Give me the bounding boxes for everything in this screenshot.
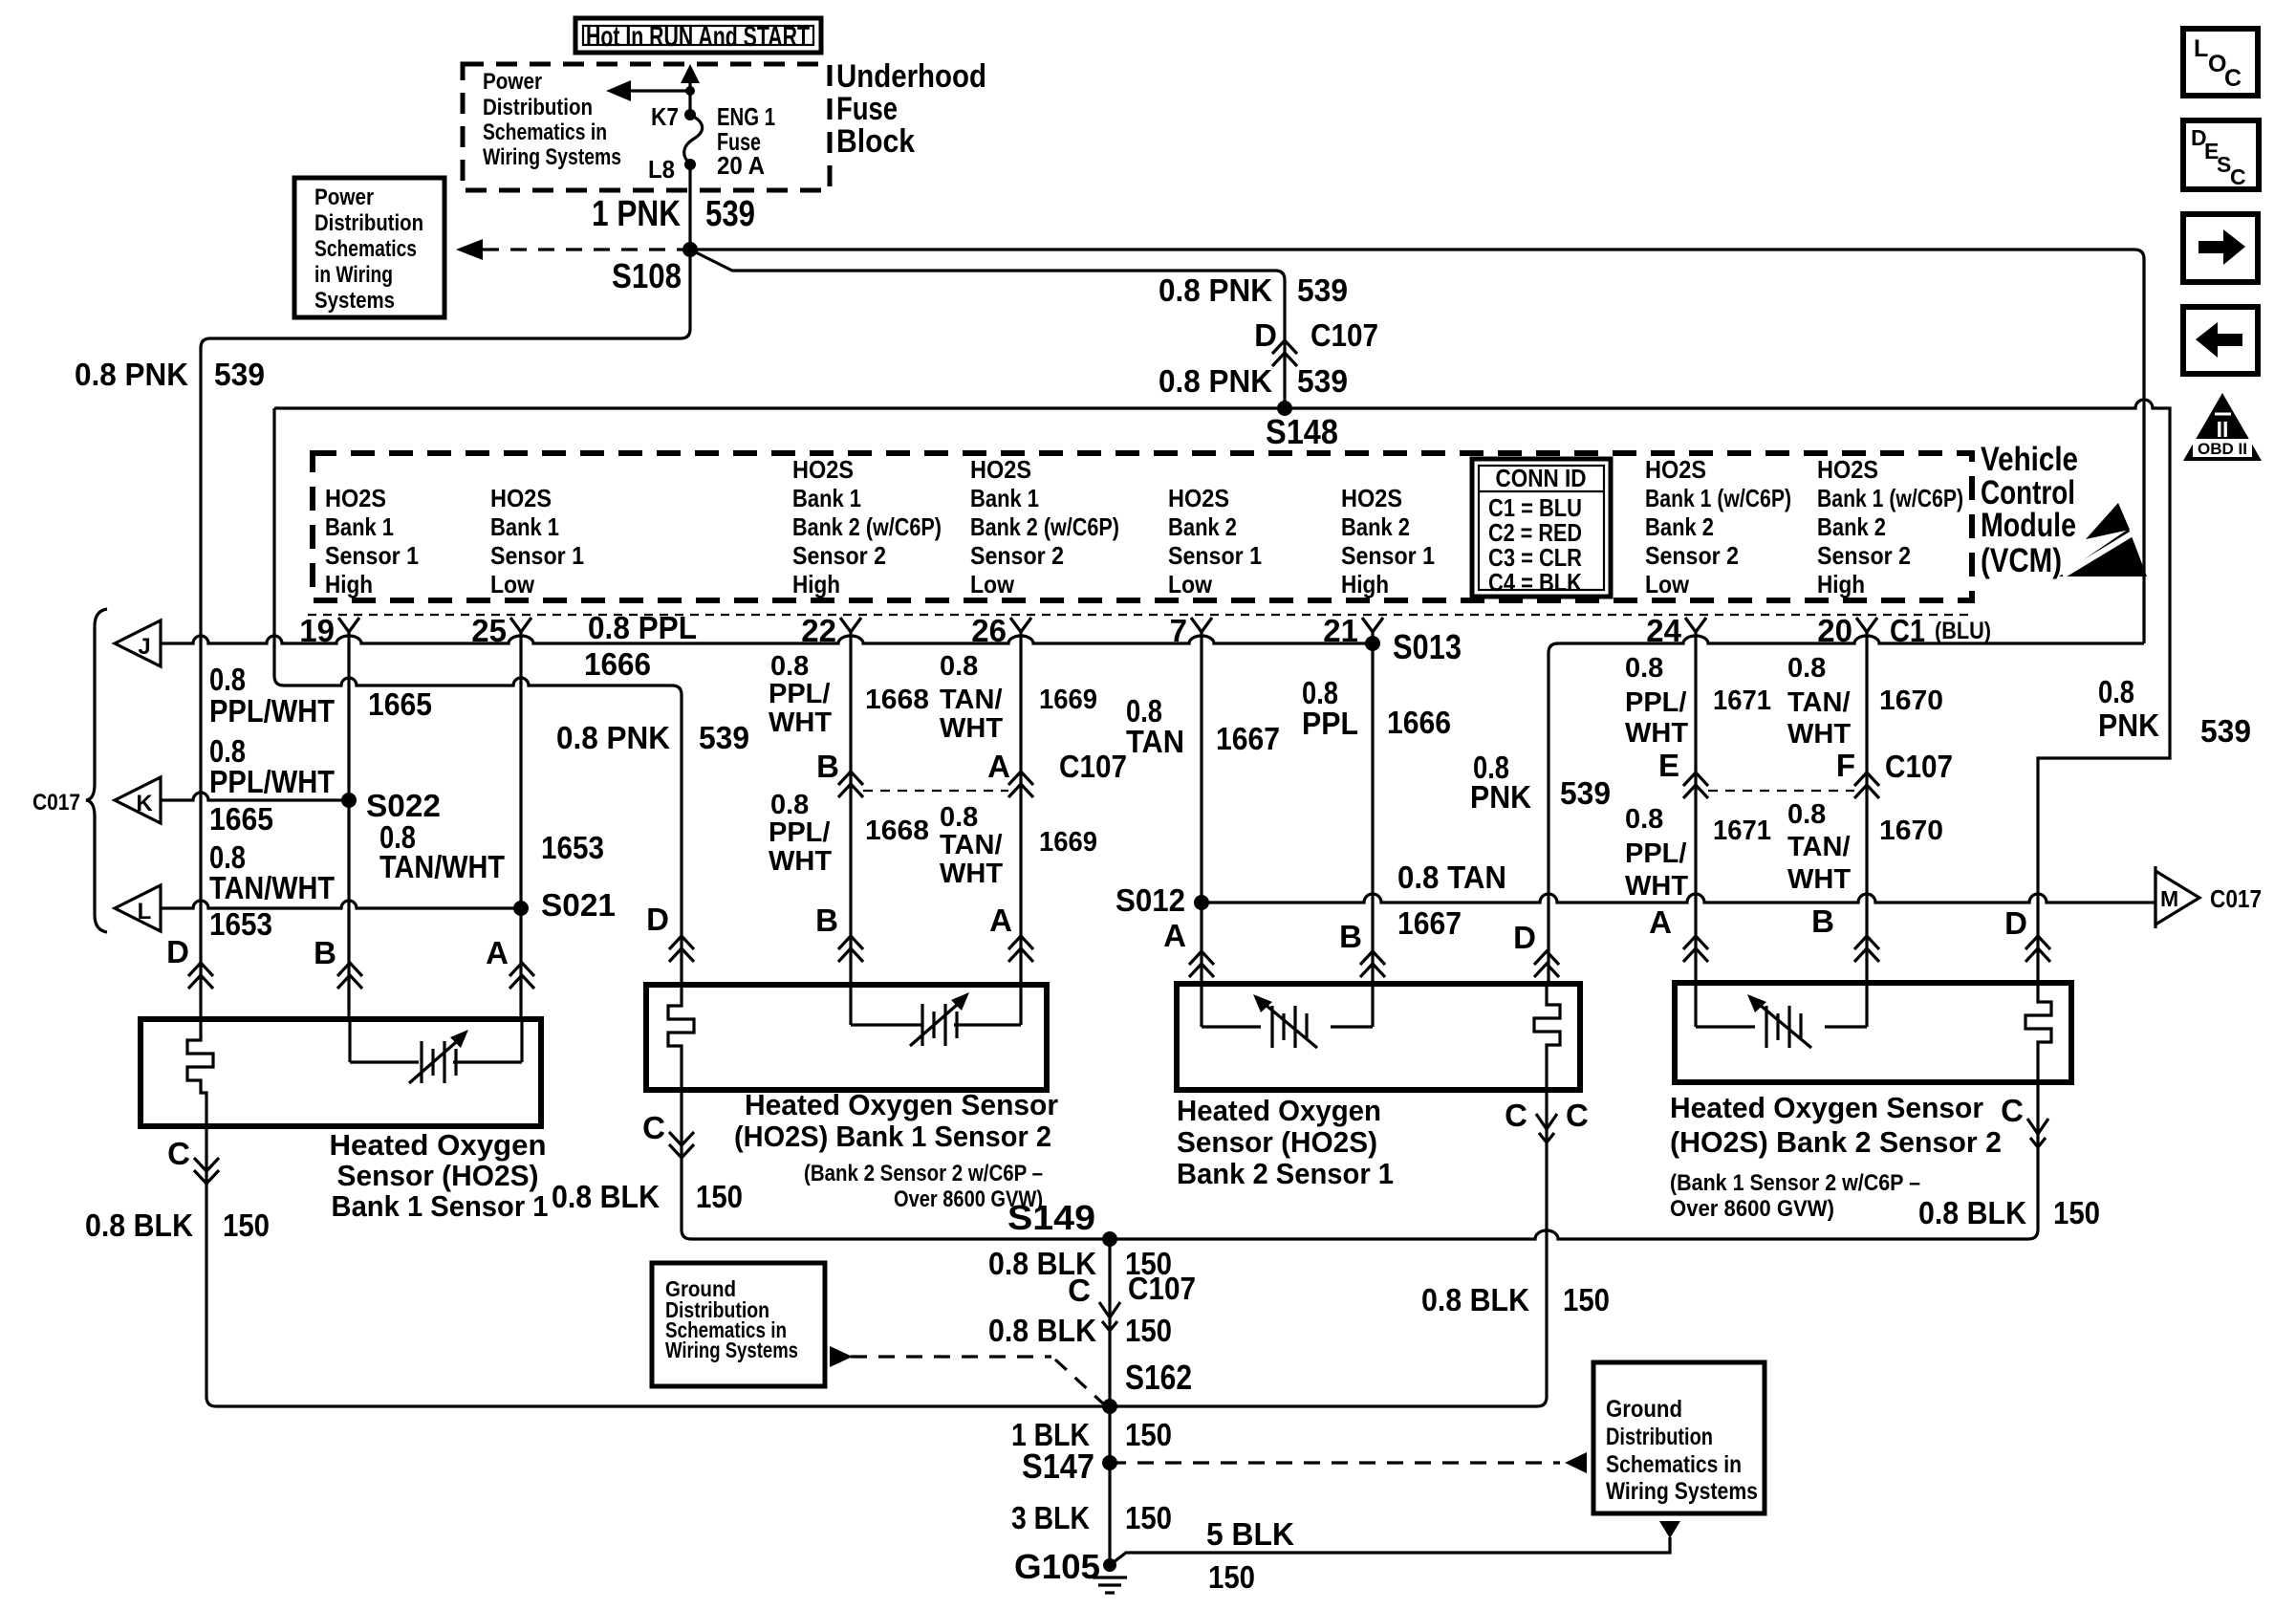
svg-text:Underhood: Underhood: [836, 58, 986, 95]
Ground Distribution box (left): [652, 1263, 825, 1386]
Power Distribution Schematics in Wiring Systems box (left): [294, 178, 444, 317]
svg-text:Ground: Ground: [1606, 1396, 1682, 1423]
svg-text:0.8: 0.8: [940, 651, 978, 682]
sensor2 C wire to S149 and sensor4 C: [682, 1082, 2038, 1239]
svg-text:Heated Oxygen Sensor: Heated Oxygen Sensor: [1670, 1091, 1983, 1124]
svg-text:High: High: [325, 570, 373, 598]
svg-text:PPL/: PPL/: [1625, 687, 1686, 718]
wire: pin 22 PPL/WHT 1668 to sensor2 B: [849, 632, 852, 985]
svg-text:PPL/: PPL/: [769, 679, 830, 709]
svg-text:0.8: 0.8: [940, 802, 978, 833]
svg-text:J: J: [138, 634, 150, 660]
sensor4 C connector: [2027, 1119, 2048, 1147]
heater element sensor4: [2025, 983, 2051, 1082]
svg-text:C: C: [167, 1136, 190, 1171]
wire: pin 24 PPL/WHT 1671 to sensor4 A: [1694, 632, 1697, 983]
svg-text:A: A: [989, 903, 1012, 938]
svg-text:A: A: [486, 935, 509, 970]
fuse ENG 1 20A with terminals K7 / L8: [688, 80, 691, 115]
svg-text:B: B: [1811, 903, 1834, 939]
right arrow icon: [2183, 214, 2258, 282]
svg-text:0.8 PNK: 0.8 PNK: [556, 720, 670, 755]
svg-text:24: 24: [1646, 613, 1681, 648]
svg-text:0.8 TAN: 0.8 TAN: [1397, 859, 1506, 895]
svg-text:Bank 1 Sensor 1: Bank 1 Sensor 1: [332, 1189, 549, 1223]
wire: J to S013 0.8 PPL 1666: [161, 636, 1373, 643]
svg-text:S162: S162: [1125, 1358, 1192, 1397]
svg-text:C: C: [1505, 1098, 1527, 1133]
svg-text:Bank 1: Bank 1: [792, 484, 861, 512]
svg-text:K: K: [136, 791, 153, 816]
svg-text:0.8: 0.8: [1625, 653, 1663, 684]
svg-text:D: D: [1513, 920, 1536, 955]
svg-text:Low: Low: [1168, 570, 1213, 598]
svg-text:B: B: [1339, 919, 1362, 954]
svg-text:0.8: 0.8: [2098, 674, 2134, 709]
wire: pin 20 TAN/WHT 1670 to sensor4 B: [1865, 632, 1868, 983]
svg-text:WHT: WHT: [769, 846, 832, 877]
svg-text:Sensor 2: Sensor 2: [1817, 541, 1911, 570]
svg-text:High: High: [792, 570, 840, 598]
svg-text:Module: Module: [1981, 507, 2076, 544]
svg-text:(VCM): (VCM): [1981, 542, 2062, 579]
svg-text:150: 150: [1125, 1500, 1172, 1535]
splice S022: [341, 793, 357, 808]
splice S148: [1277, 401, 1292, 416]
heater element sensor1: [187, 1019, 213, 1126]
svg-text:539: 539: [1297, 363, 1348, 399]
wire: pin 19 PPL/WHT 1665 to sensor1 B: [347, 632, 350, 1019]
svg-text:0.8 PNK: 0.8 PNK: [75, 357, 188, 392]
svg-text:(Bank 2 Sensor 2 w/C6P –: (Bank 2 Sensor 2 w/C6P –: [804, 1161, 1043, 1186]
wire: S012 to M 0.8 TAN 1667: [1202, 894, 2155, 903]
Underhood Fuse Block dashed box: [463, 64, 830, 190]
heater element sensor3: [1534, 984, 1560, 1090]
svg-text:1669: 1669: [1039, 685, 1097, 715]
splice S013: [1365, 636, 1380, 651]
svg-text:150: 150: [2053, 1195, 2100, 1230]
LOC icon: [2183, 29, 2258, 96]
svg-text:0.8 BLK: 0.8 BLK: [1918, 1195, 2026, 1230]
wire: pin 25 TAN/WHT 1653 to sensor1 A: [519, 632, 522, 1019]
splice S149: [1102, 1231, 1117, 1247]
svg-text:HO2S: HO2S: [1341, 484, 1402, 512]
VCM pins with ticks: [338, 618, 359, 632]
label box: Hot In RUN And START: [575, 18, 821, 53]
svg-text:S012: S012: [1116, 882, 1185, 918]
svg-text:Bank 1 (w/C6P): Bank 1 (w/C6P): [1645, 484, 1791, 512]
svg-text:WHT: WHT: [1625, 718, 1688, 749]
svg-text:HO2S: HO2S: [325, 484, 386, 512]
svg-text:Sensor 2: Sensor 2: [970, 541, 1064, 570]
svg-text:C107: C107: [1059, 749, 1127, 784]
svg-text:OBD II: OBD II: [2198, 440, 2247, 458]
svg-text:Fuse: Fuse: [836, 91, 898, 127]
dashed arrow from left ground box to S162: [830, 1346, 853, 1367]
connector C017 brace: [86, 609, 107, 932]
svg-text:Sensor 1: Sensor 1: [490, 541, 584, 570]
svg-text:S021: S021: [541, 887, 616, 923]
svg-text:HO2S: HO2S: [1817, 455, 1878, 484]
ground trunk wire: [1108, 1239, 1111, 1565]
svg-text:150: 150: [223, 1207, 270, 1243]
sensor element sensor2: [851, 985, 1021, 1025]
splice S012: [1194, 895, 1209, 910]
svg-text:M: M: [2160, 886, 2178, 911]
svg-text:B: B: [816, 749, 839, 784]
svg-text:Sensor 1: Sensor 1: [1341, 541, 1435, 570]
svg-text:TAN/: TAN/: [1787, 832, 1851, 862]
svg-text:C: C: [642, 1110, 665, 1145]
ground G105: [1103, 1558, 1116, 1572]
svg-text:0.8 BLK: 0.8 BLK: [1421, 1282, 1529, 1317]
svg-text:Block: Block: [836, 123, 915, 160]
svg-text:Wiring Systems: Wiring Systems: [1606, 1478, 1758, 1505]
svg-text:539: 539: [699, 720, 749, 755]
svg-text:Wiring Systems: Wiring Systems: [483, 144, 621, 170]
svg-text:Over 8600 GVW): Over 8600 GVW): [1670, 1196, 1834, 1222]
svg-text:1671: 1671: [1713, 816, 1771, 846]
svg-text:0.8 BLK: 0.8 BLK: [85, 1207, 193, 1243]
svg-text:1667: 1667: [1216, 721, 1280, 756]
dashed arrow to Power Distribution box: [483, 248, 686, 250]
svg-text:0.8: 0.8: [1787, 799, 1826, 830]
terminal J: [115, 620, 161, 666]
svg-text:0.8 BLK: 0.8 BLK: [988, 1313, 1096, 1348]
svg-text:Wiring Systems: Wiring Systems: [665, 1338, 798, 1362]
svg-text:II: II: [2217, 417, 2229, 442]
svg-text:Heated Oxygen Sensor: Heated Oxygen Sensor: [745, 1088, 1058, 1121]
svg-text:TAN/: TAN/: [1787, 687, 1851, 718]
svg-text:1671: 1671: [1713, 685, 1771, 716]
svg-text:A: A: [1649, 904, 1672, 940]
svg-text:PPL/WHT: PPL/WHT: [209, 693, 335, 729]
svg-text:PPL: PPL: [1302, 706, 1358, 741]
svg-text:S022: S022: [366, 788, 441, 823]
sensor1 C wire and S162 run: [206, 1090, 1547, 1406]
svg-text:B: B: [815, 903, 838, 938]
svg-text:539: 539: [1297, 272, 1348, 308]
CONN ID table: [1472, 459, 1611, 597]
svg-text:Distribution: Distribution: [314, 210, 423, 236]
svg-text:1665: 1665: [368, 686, 432, 722]
wire: 5 BLK 150 from right ground box to G105: [1110, 1537, 1670, 1565]
svg-text:C107: C107: [1128, 1271, 1196, 1306]
splice S162: [1102, 1399, 1117, 1414]
svg-text:3 BLK: 3 BLK: [1011, 1500, 1090, 1535]
DESC icon: [2183, 120, 2259, 189]
VCM dashed box: [313, 453, 1972, 600]
svg-text:Bank 2: Bank 2: [1341, 512, 1410, 541]
HO2S sensor 4 box: [1675, 983, 2071, 1082]
svg-text:0.8 BLK: 0.8 BLK: [552, 1179, 660, 1214]
svg-text:Low: Low: [970, 570, 1015, 598]
svg-text:1669: 1669: [1039, 827, 1097, 858]
ESD sensitivity symbol: [2086, 503, 2130, 539]
svg-text:D: D: [1254, 317, 1277, 353]
svg-text:PNK: PNK: [1470, 779, 1531, 815]
wire: S108 right top run 0.8 PNK to right side: [690, 250, 2144, 643]
svg-text:Distribution: Distribution: [1606, 1424, 1713, 1450]
wire: pin 7 TAN 1667 to sensor3 A: [1200, 632, 1202, 984]
connector D C107 chevron: [1272, 340, 1297, 366]
svg-text:(HO2S) Bank 1 Sensor 2: (HO2S) Bank 1 Sensor 2: [734, 1120, 1051, 1153]
sensor element sensor3: [1202, 984, 1373, 1027]
svg-text:Bank 2: Bank 2: [1645, 512, 1714, 541]
svg-text:F: F: [1836, 748, 1855, 783]
svg-text:CONN ID: CONN ID: [1496, 464, 1587, 492]
svg-text:L: L: [138, 899, 152, 925]
svg-text:D: D: [2004, 905, 2027, 941]
svg-text:1667: 1667: [1397, 905, 1462, 941]
svg-text:1666: 1666: [1387, 705, 1451, 740]
left arrow icon: [2183, 307, 2258, 374]
svg-text:High: High: [1817, 570, 1865, 598]
svg-text:TAN/: TAN/: [940, 830, 1003, 860]
svg-text:Sensor 2: Sensor 2: [1645, 541, 1739, 570]
svg-text:Bank 2 (w/C6P): Bank 2 (w/C6P): [970, 512, 1119, 541]
svg-text:Bank 1: Bank 1: [490, 512, 559, 541]
svg-text:20: 20: [1817, 613, 1852, 648]
svg-text:HO2S: HO2S: [970, 455, 1031, 484]
svg-text:K7: K7: [651, 102, 679, 131]
terminal K: [115, 777, 161, 823]
svg-text:Power: Power: [314, 185, 374, 210]
svg-text:Low: Low: [1645, 570, 1690, 598]
svg-text:Sensor 2: Sensor 2: [792, 541, 886, 570]
svg-text:E: E: [1658, 748, 1679, 783]
svg-text:D: D: [646, 902, 669, 937]
svg-text:1670: 1670: [1879, 685, 1943, 716]
svg-text:PPL/WHT: PPL/WHT: [209, 764, 335, 799]
svg-text:C107: C107: [1310, 317, 1378, 353]
svg-text:WHT: WHT: [1787, 864, 1851, 895]
svg-text:Schematics in: Schematics in: [483, 120, 607, 145]
svg-text:C1: C1: [1890, 613, 1925, 648]
svg-text:A: A: [987, 749, 1010, 784]
svg-text:A: A: [1163, 918, 1186, 953]
svg-text:Bank 1 (w/C6P): Bank 1 (w/C6P): [1817, 484, 1963, 512]
svg-text:Sensor (HO2S): Sensor (HO2S): [337, 1159, 539, 1192]
svg-text:S147: S147: [1022, 1447, 1094, 1486]
svg-text:G105: G105: [1014, 1547, 1100, 1586]
svg-text:Bank 2 (w/C6P): Bank 2 (w/C6P): [792, 512, 942, 541]
svg-text:D: D: [166, 934, 189, 969]
svg-text:PPL/: PPL/: [769, 817, 830, 848]
svg-text:PPL/: PPL/: [1625, 838, 1686, 869]
svg-text:(HO2S) Bank 2 Sensor 2: (HO2S) Bank 2 Sensor 2: [1670, 1125, 2002, 1159]
svg-text:High: High: [1341, 570, 1389, 598]
svg-text:0.8: 0.8: [770, 790, 809, 820]
svg-text:539: 539: [1560, 775, 1611, 811]
svg-text:1653: 1653: [541, 830, 604, 865]
splice S108: [682, 242, 698, 257]
heater element sensor2: [668, 985, 694, 1090]
terminal L: [115, 885, 161, 931]
svg-text:150: 150: [696, 1179, 743, 1214]
svg-text:0.8 PNK: 0.8 PNK: [1159, 363, 1272, 399]
svg-text:C: C: [1566, 1098, 1589, 1133]
svg-text:Bank 2: Bank 2: [1168, 512, 1237, 541]
svg-text:S149: S149: [1007, 1198, 1095, 1237]
svg-text:0.8: 0.8: [770, 651, 809, 682]
svg-text:C4 = BLK: C4 = BLK: [1488, 568, 1582, 597]
HO2S sensor 2 box: [646, 985, 1047, 1090]
sensor element sensor4: [1696, 983, 1867, 1027]
svg-text:539: 539: [2200, 713, 2251, 749]
svg-text:S148: S148: [1266, 412, 1338, 451]
svg-text:C: C: [1068, 1273, 1091, 1308]
svg-text:C: C: [2001, 1093, 2024, 1128]
splice S147: [1102, 1455, 1117, 1470]
svg-text:539: 539: [214, 357, 265, 392]
svg-text:TAN/WHT: TAN/WHT: [379, 849, 505, 884]
svg-text:WHT: WHT: [940, 859, 1003, 889]
svg-text:Bank 2 Sensor 1: Bank 2 Sensor 1: [1177, 1157, 1394, 1190]
svg-text:20 A: 20 A: [717, 151, 765, 180]
svg-text:1 PNK: 1 PNK: [592, 194, 681, 234]
svg-text:150: 150: [1208, 1559, 1255, 1595]
svg-text:Heated Oxygen: Heated Oxygen: [330, 1128, 547, 1162]
svg-text:HO2S: HO2S: [1168, 484, 1229, 512]
svg-text:PNK: PNK: [2098, 707, 2159, 743]
Ground Distribution box (right): [1593, 1362, 1765, 1513]
svg-text:HO2S: HO2S: [490, 484, 552, 512]
svg-text:Power: Power: [483, 69, 542, 95]
svg-text:C: C: [2230, 164, 2246, 189]
wire: pin 26 TAN/WHT 1669 to sensor2 A: [1019, 632, 1022, 985]
svg-text:Low: Low: [490, 570, 535, 598]
svg-text:Bank 1: Bank 1: [970, 484, 1039, 512]
svg-text:WHT: WHT: [1625, 871, 1688, 902]
svg-text:WHT: WHT: [940, 713, 1003, 744]
svg-text:(BLU): (BLU): [1935, 618, 1991, 644]
svg-text:539: 539: [705, 194, 755, 234]
svg-text:1670: 1670: [1879, 816, 1943, 846]
svg-text:Sensor (HO2S): Sensor (HO2S): [1177, 1125, 1377, 1159]
svg-text:1665: 1665: [209, 801, 273, 837]
wire: L to S021 0.8 TAN/WHT 1653: [161, 901, 521, 908]
svg-text:(Bank 1 Sensor 2 w/C6P –: (Bank 1 Sensor 2 w/C6P –: [1670, 1170, 1920, 1196]
HO2S sensor 1 box: [141, 1019, 541, 1126]
svg-text:WHT: WHT: [769, 707, 832, 738]
sensor element sensor1: [350, 1019, 522, 1062]
svg-text:TAN: TAN: [1126, 724, 1184, 759]
svg-text:Schematics: Schematics: [314, 236, 417, 262]
svg-text:WHT: WHT: [1787, 719, 1851, 750]
splice S021: [513, 901, 529, 916]
svg-text:0.8: 0.8: [209, 662, 246, 697]
svg-text:1668: 1668: [865, 816, 929, 846]
svg-text:1666: 1666: [584, 646, 651, 682]
svg-text:Systems: Systems: [314, 288, 395, 314]
svg-text:5 BLK: 5 BLK: [1206, 1516, 1294, 1552]
OBD II icon: [2183, 393, 2262, 461]
svg-text:150: 150: [1125, 1417, 1172, 1452]
wire: long 0.8 PNK 539 run through S148, right side down to sensor 4 heater D: [274, 400, 2170, 983]
svg-text:C: C: [2224, 65, 2242, 92]
svg-text:0.8 PNK: 0.8 PNK: [1159, 272, 1272, 308]
wire: fuse output 1 PNK 539: [688, 164, 691, 250]
svg-text:0.8: 0.8: [1625, 804, 1663, 835]
svg-text:C017: C017: [32, 790, 80, 816]
svg-text:Sensor 1: Sensor 1: [325, 541, 419, 570]
svg-text:Hot In RUN And START: Hot In RUN And START: [586, 21, 810, 53]
svg-text:1653: 1653: [209, 906, 272, 942]
svg-text:HO2S: HO2S: [792, 455, 854, 484]
svg-text:Bank 1: Bank 1: [325, 512, 394, 541]
wire: S108 down-left 0.8 PNK to sensor 1 heater D: [201, 250, 690, 1019]
svg-text:TAN/WHT: TAN/WHT: [209, 870, 335, 905]
svg-text:Heated Oxygen: Heated Oxygen: [1177, 1094, 1381, 1127]
svg-text:1668: 1668: [865, 685, 929, 715]
dashed arrow S147 to right ground box: [1110, 1461, 1560, 1464]
svg-text:C107: C107: [1885, 749, 1953, 784]
thin connector dashed line: [308, 614, 1974, 616]
svg-text:0.8: 0.8: [1787, 653, 1826, 684]
svg-text:150: 150: [1563, 1282, 1610, 1317]
terminal M C017: [2154, 866, 2156, 928]
svg-text:Bank 2: Bank 2: [1817, 512, 1886, 541]
sensor3 C connector: [1536, 1114, 1557, 1142]
wire: 0.8 PNK branch down to sensor 2 heater D: [274, 408, 682, 985]
svg-text:Schematics in: Schematics in: [1606, 1451, 1742, 1478]
wire: 0.8 PNK lower-right run to sensor 3 heater D: [1549, 636, 2144, 984]
svg-text:TAN/: TAN/: [940, 685, 1003, 715]
svg-text:C017: C017: [2210, 884, 2262, 913]
svg-text:0.8 PPL: 0.8 PPL: [588, 610, 697, 645]
svg-text:Sensor 1: Sensor 1: [1168, 541, 1262, 570]
svg-text:L8: L8: [648, 155, 675, 184]
svg-text:in Wiring: in Wiring: [314, 262, 393, 288]
wire: S108 to D C107 connector down to S148: [690, 250, 1285, 408]
svg-text:S108: S108: [612, 256, 682, 295]
svg-text:L: L: [2194, 35, 2208, 62]
svg-text:150: 150: [1125, 1313, 1172, 1348]
svg-text:S013: S013: [1393, 627, 1462, 666]
wire: pin 21 PPL 1666 to sensor3 B: [1371, 632, 1374, 984]
HO2S sensor 3 box: [1177, 984, 1580, 1090]
wire: K to S022 0.8 PPL/WHT 1665: [161, 793, 349, 800]
svg-text:HO2S: HO2S: [1645, 455, 1706, 484]
svg-text:B: B: [314, 935, 336, 970]
svg-text:Vehicle: Vehicle: [1981, 441, 2078, 478]
svg-text:Distribution: Distribution: [483, 95, 593, 120]
